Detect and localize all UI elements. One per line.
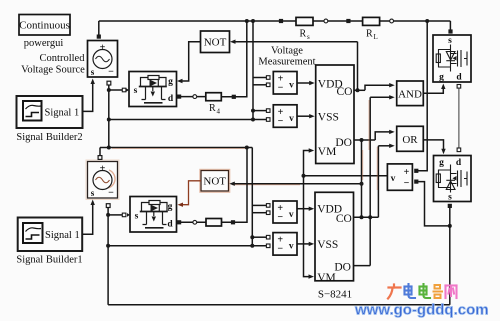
arrow AND in1 [389,83,395,87]
vertical OR in2 feed [377,146,379,218]
watermark char qi [434,285,443,298]
arrow into VDD1 [309,81,315,85]
wire Signal Builder2 to V1 s input [83,82,93,112]
wire to MOSFET1 s input [109,89,123,91]
wire NOT2 input from CO2 [231,183,362,185]
arrow into VM2 [309,274,315,278]
wire DO1 output [354,139,375,141]
watermark chinese characters [388,284,457,299]
v sense line to VM pins [304,175,388,177]
resistor RL [363,17,380,41]
svg-text:s: s [307,33,310,41]
junction at NOT2 line [360,182,364,186]
port left of Rs [279,19,283,23]
MOSFET M4 block bottom right [434,156,472,203]
svg-text:Signal Builder1: Signal Builder1 [16,255,82,266]
svg-text:−: − [277,212,283,223]
vertical AND in2 to DO2 [369,97,371,265]
svg-text:CO: CO [336,213,352,225]
arrow AND in2 [389,95,395,99]
svg-text:v: v [289,210,294,220]
port left of RL [346,19,350,23]
junction [251,118,255,122]
watermark char dian1 [405,284,416,298]
svg-text:d: d [456,158,462,168]
port V1 minus output [107,81,111,85]
stub to meas1 plus [253,77,266,79]
svg-text:Signal Builder2: Signal Builder2 [16,132,82,143]
svg-text:L: L [374,33,378,41]
arrow up into g [441,84,445,90]
svg-text:DO: DO [335,137,352,149]
junction [448,224,452,228]
svg-text:s: s [91,67,95,77]
port MOSFET2 s [122,213,126,217]
arrow into MOSFET1 s [126,88,129,92]
port above V2 [98,156,102,160]
wire v plus to top rail [418,21,427,171]
junction on top rail [251,19,255,23]
junction [245,146,249,150]
port M2 d [177,220,181,224]
port meas1 minus [266,83,270,87]
Signal Builder2 block [17,96,83,128]
controlled voltage source V2 [86,160,119,200]
port circle [193,220,197,224]
protection IC U2 block S-8241 [315,192,354,284]
svg-text:Voltage Source: Voltage Source [21,65,85,76]
stub to meas3 plus [252,204,266,206]
svg-text:+: + [100,164,106,175]
junction DO1 [360,138,364,142]
arrow OR in1 [389,130,395,134]
watermark char dian2 [420,284,431,298]
svg-text:−: − [108,67,114,78]
resistor Rs [296,17,313,41]
svg-text:−: − [404,178,410,189]
wire M2 d to R4b [181,221,206,223]
wire DO1 to OR input1 [375,132,391,140]
port meas3 plus [266,204,270,208]
vertical feed lower measurement column [251,148,253,246]
Voltage Measurement label [258,46,315,68]
wire CO1 to AND input1 [365,85,392,90]
svg-text:d: d [456,73,462,83]
arrow into VM1 [309,148,315,152]
junction on top rail [245,19,249,23]
svg-text:g: g [439,158,444,168]
wire NOT1 input from CO1 [232,41,358,43]
watermark char guang [388,285,401,299]
arrow into VDD2 [309,207,315,211]
wire meas3 v to VDD2 [297,208,311,210]
port meas2 minus [266,118,270,122]
port right of Rs [324,19,328,23]
svg-text:−: − [278,116,284,127]
svg-text:VSS: VSS [317,239,338,251]
port meas1 plus [266,76,270,80]
wire v minus to bottom source [418,182,450,226]
port M4 d above [457,148,461,152]
port M1 d [177,95,181,99]
Signal Builder1 block [18,218,83,252]
svg-text:VSS: VSS [318,112,339,124]
junction [250,244,254,248]
wire AND output to top MOSFET gate [423,86,443,93]
svg-text:g: g [168,77,173,87]
wire OR output to bottom MOSFET gate [423,140,443,151]
svg-text:s: s [448,193,452,203]
junction [107,88,111,92]
controlled voltage source label [21,53,85,76]
svg-text:s: s [135,212,139,222]
wire VM1 input [304,151,311,176]
MOSFET M3 block top right [433,35,471,83]
wire Signal Builder1 to V2 s input [82,203,93,235]
AND gate block [397,81,424,106]
arrow into VSS2 [309,242,315,246]
port meas2 plus [266,109,270,113]
resistor R4 [206,93,222,101]
svg-text:−: − [278,83,284,94]
wire meas2 v to VSS1 [297,115,311,117]
junction [106,244,110,248]
port M4 s below [448,204,452,208]
red tint verticals [363,100,378,190]
bottom rail wire [108,304,450,306]
svg-text:s: s [91,188,95,198]
arrow into MOSFET2 s [127,213,130,217]
voltage measurement block VM1a [273,72,297,95]
port square after R4b [231,220,235,224]
svg-text:Voltage: Voltage [271,46,303,57]
port V2 minus output [106,204,110,208]
svg-text:CO: CO [337,86,353,98]
svg-text:Continuous: Continuous [19,20,70,32]
wire V1 minus down [108,85,110,148]
wire top rail down to M3 s [449,21,451,30]
lower rail wire y=245.8 [108,245,266,247]
arrow OR in2 [389,144,395,148]
wire CO1 up to NOT1 [357,42,359,91]
svg-text:DO: DO [334,262,351,274]
stub to meas1 minus [253,84,266,86]
svg-text:VM: VM [318,146,337,158]
svg-text:S−8241: S−8241 [318,289,352,301]
wire V1 plus up to top rail [98,21,100,35]
arrow into M1 g [177,79,183,83]
svg-text:v: v [391,174,396,184]
svg-text:www.go-gddq.com: www.go-gddq.com [354,302,489,319]
wire to AND input2 [370,96,391,98]
wire V2 minus down to bottom rail [107,207,109,305]
voltage measurement block VM1b [273,105,297,128]
watermark char wang [446,286,457,299]
port above V1 [97,35,101,39]
OR gate block [397,126,424,151]
wire V2 plus up to second rail [99,148,101,156]
svg-text:v: v [289,81,294,91]
junction [107,146,111,150]
port square after R4 [232,95,236,99]
powergui block [19,15,70,36]
svg-text:s: s [134,86,138,96]
svg-text:OR: OR [402,134,418,146]
wire R4b to second rail [222,148,248,223]
wire VM2 input [304,176,311,277]
svg-text:g: g [439,73,444,83]
wire to OR input2 [378,145,391,147]
stub to meas3 minus [252,212,266,214]
svg-text:Controlled: Controlled [40,53,86,64]
junction on v sense line [302,174,306,178]
svg-text:powergui: powergui [24,38,64,49]
junction [368,215,372,219]
arrow down into g [441,149,445,155]
junction at CO2 [360,215,364,219]
wire CO2 output [354,216,379,218]
arrow into V1 s [91,79,95,85]
voltage measurement block VM2a [273,201,297,223]
svg-text:v: v [289,114,294,124]
junction on top rail [425,19,429,23]
vertical feed top measurement column [252,21,254,120]
svg-text:d: d [168,94,174,104]
port MOSFET1 s [122,88,126,92]
port meas4 plus [266,235,270,239]
svg-text:+: + [100,43,106,54]
svg-text:Measurement: Measurement [258,57,315,68]
wire M4 s down to bottom rail [449,208,451,305]
arrow into NOT1 [230,40,236,44]
svg-text:Signal 1: Signal 1 [45,230,80,241]
port v minus [414,180,418,184]
MOSFET M2 block [130,197,177,233]
wire to MOSFET2 s input [108,214,122,216]
NOT gate NOT2 [200,169,230,192]
wire R4 to rail [221,21,247,97]
port circle [193,95,197,99]
svg-text:Signal 1: Signal 1 [45,108,80,119]
wire CO1 output [354,89,365,91]
junction [106,213,110,217]
wire NOT2 output to M2 gate [181,181,202,205]
junction [107,118,111,122]
arrow into NOT2 [229,182,235,186]
top rail wire [99,20,451,22]
svg-text:+: + [404,167,410,178]
wire DO2 output [354,265,371,267]
junction [251,109,255,113]
arrow into VSS1 [309,114,315,118]
vertical DO1 CO2 NOT2 net [361,140,363,217]
NOT gate NOT1 [201,31,230,53]
controlled voltage source V1 [88,41,118,78]
port M3 d below [457,85,461,89]
svg-text:−: − [277,244,283,255]
svg-text:g: g [168,202,173,212]
arrow into M2 g [178,203,184,207]
red tint on NOT2 input wire [232,184,300,186]
port right of RL [390,19,394,23]
svg-text:R: R [209,103,216,114]
port v plus [414,169,418,173]
wire NOT1 output to M1 gate [180,42,201,81]
arrow into V2 s [91,200,95,206]
junction [250,235,254,239]
svg-text:4: 4 [217,108,221,116]
svg-text:AND: AND [398,88,422,100]
red tint on second rail [112,148,245,150]
port above M3 [448,29,452,33]
svg-text:VM: VM [317,272,336,284]
svg-text:d: d [167,220,173,230]
svg-text:v: v [289,242,294,252]
mid rail wire y=119.5 [109,119,253,121]
stub to meas4 plus [252,236,266,238]
wire M1 d to R4 [181,96,206,98]
svg-text:NOT: NOT [204,37,227,49]
wire meas1 v to VDD1 [297,82,311,84]
svg-text:R: R [300,29,307,40]
battery voltage sense block v [387,164,412,190]
svg-text:−: − [108,188,114,199]
voltage measurement block VM2b [273,233,297,256]
stub to meas2 minus [253,119,266,121]
junction CO1 [356,88,360,92]
svg-text:NOT: NOT [203,176,226,188]
svg-text:R: R [366,29,373,40]
MOSFET M1 block [129,72,177,107]
port meas3 minus [266,211,270,215]
wire meas4 v to VSS2 [297,243,311,245]
port meas4 minus [266,244,270,248]
wire M3 d down to M4 d [458,88,460,148]
stub to meas2 plus [253,110,266,112]
resistor R4b [206,219,222,227]
protection IC U1 block [316,65,354,164]
second rail wire y=147.5 [100,147,252,149]
